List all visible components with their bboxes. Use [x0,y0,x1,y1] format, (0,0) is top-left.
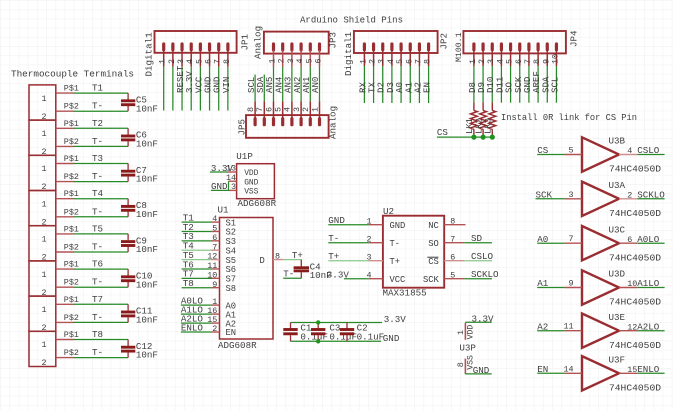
power block U1P (ADG608R supply) [226,151,277,209]
svg-text:T8: T8 [92,329,103,340]
wire net SCL [246,75,257,102]
wire JP4 pin 5 net SO [504,66,515,103]
svg-text:A0: A0 [537,234,548,245]
svg-text:6: 6 [314,58,324,63]
svg-text:VSS: VSS [244,188,258,197]
svg-text:4: 4 [627,146,632,156]
svg-text:Analog: Analog [252,26,263,59]
wire net A2LO to U1 [181,313,212,324]
wire net CSLO from U3B pin 4 [637,145,664,156]
svg-text:EN: EN [422,82,433,93]
wire JP1 pin 5 net VCC [193,67,204,111]
wire net A1LO from U3D pin 10 [637,278,664,289]
svg-text:3.3V: 3.3V [472,313,495,324]
svg-text:P$2: P$2 [64,313,79,323]
svg-text:VDD: VDD [466,325,475,340]
svg-text:7: 7 [450,235,455,245]
svg-text:P$2: P$2 [64,243,79,253]
connector JP4 (M100.1) [455,30,580,66]
wire net T1 (pin P$1) [64,83,128,94]
svg-text:U3E: U3E [609,312,626,323]
svg-text:SCKLO: SCKLO [471,269,499,280]
wire net GND to U2 pin 1 [328,215,368,226]
svg-text:6: 6 [627,235,632,245]
wire net T3 (pin P$1) [64,153,128,164]
svg-text:T-: T- [92,242,103,253]
wire net 3.3V to U1P pin 13 [210,163,233,174]
wire net T3 to U1 S3 [182,231,212,242]
wire net T- (pin P$2) [64,171,128,182]
wire net SCK to U3A pin 3 [536,189,565,200]
wire JP4 pin 9 net SDA [540,66,551,103]
svg-text:0.1uF: 0.1uF [357,332,385,343]
buffer U3C 74HC4050D [565,224,661,263]
wire net T7 (pin P$1) [64,294,128,305]
svg-text:P$1: P$1 [64,154,79,164]
svg-text:EN: EN [226,328,237,338]
svg-text:AN0: AN0 [310,77,321,93]
svg-text:SCK: SCK [423,275,440,285]
svg-text:P$1: P$1 [64,330,79,340]
svg-text:2: 2 [212,324,217,334]
svg-text:6: 6 [450,253,455,263]
wire net T- (pin P$2) [64,277,128,288]
svg-text:T-: T- [92,136,103,147]
junction CS/LK2 [481,135,486,140]
svg-text:3.3V: 3.3V [327,269,350,280]
svg-text:SCK: SCK [536,189,553,200]
wire net T- to U2 pin 2 [328,233,368,244]
wire net CS to U3B pin 5 [537,145,564,156]
wire JP2 pin 2 net TX [367,66,378,103]
svg-text:SO: SO [428,239,439,249]
svg-text:P$1: P$1 [64,295,79,305]
svg-text:74HC4050D: 74HC4050D [609,341,661,351]
svg-text:MAX31855: MAX31855 [383,288,427,299]
svg-text:P$1: P$1 [64,84,79,94]
svg-text:VIN: VIN [221,77,232,93]
wire net T- (pin P$2) [64,347,128,358]
wire JP4 pin 1 net D8 [467,66,478,102]
svg-text:U3B: U3B [609,136,626,147]
wire JP1 pin 7 net GND [212,67,223,111]
wire net T2 (pin P$1) [64,118,128,129]
wire JP1 pin 3 net RESET [175,65,186,110]
svg-text:T-: T- [92,206,103,217]
svg-text:T-: T- [92,277,103,288]
svg-text:JP5: JP5 [236,119,247,136]
wire net A0LO from U3C pin 6 [637,234,664,245]
svg-text:A0LO: A0LO [637,234,660,245]
svg-text:8: 8 [275,251,280,261]
svg-text:U1: U1 [218,205,230,216]
svg-text:74HC4050D: 74HC4050D [609,209,661,219]
junction CS/LK1 [471,135,476,140]
wire net T1 to U1 S1 [182,212,212,223]
svg-text:9: 9 [212,280,217,290]
svg-text:8: 8 [222,59,232,64]
wire JP2 pin 3 net D2 [376,66,387,103]
svg-text:74HC4050D: 74HC4050D [609,383,661,393]
svg-text:T8: T8 [183,278,194,289]
svg-text:10: 10 [627,279,637,289]
capacitor C1 0.1uF [283,323,328,343]
junction C3 top [316,320,320,324]
svg-text:15: 15 [627,365,637,375]
svg-text:74HC4050D: 74HC4050D [609,253,661,263]
wire net A2LO from U3E pin 12 [637,321,664,332]
svg-text:U1P: U1P [236,151,253,162]
svg-text:1: 1 [41,199,46,209]
svg-text:1: 1 [456,330,466,335]
svg-text:CSLO: CSLO [471,251,494,262]
svg-text:Digital1: Digital1 [343,31,354,76]
svg-text:8: 8 [423,59,433,64]
svg-text:1: 1 [41,305,46,315]
svg-text:P$1: P$1 [64,119,79,129]
svg-text:11: 11 [563,322,573,332]
capacitor C9 10nF [121,234,158,255]
wire net 3.3V to U3P pin 1 [465,313,494,324]
wire JP2 pin 4 net D3 [385,66,396,103]
svg-text:JP3: JP3 [327,32,338,49]
capacitor C5 10nF [121,93,158,114]
svg-text:LK3: LK3 [484,118,494,134]
svg-text:T+: T+ [292,250,303,261]
svg-text:U3A: U3A [609,180,626,191]
svg-text:T+: T+ [328,251,339,262]
wire net SCKLO from U2 pin 5 [464,269,499,280]
svg-text:3: 3 [231,182,236,192]
svg-text:U3F: U3F [609,355,626,366]
svg-text:8: 8 [450,217,455,227]
thermocouple ADC U2 MAX31855 [366,206,465,299]
wire net AN1 [301,67,312,101]
svg-text:ENLO: ENLO [181,322,204,333]
svg-text:CSLO: CSLO [637,145,660,156]
svg-text:8: 8 [456,362,466,367]
wire net AN4 [273,67,284,101]
connector terminal T8 [29,331,74,368]
svg-text:12: 12 [627,322,637,332]
wire JP2 pin 1 net RX [357,66,368,103]
buffer U3E 74HC4050D [563,312,661,351]
svg-text:P$2: P$2 [64,137,79,147]
svg-text:T6: T6 [92,259,103,270]
svg-text:U3P: U3P [459,343,476,354]
svg-text:A2: A2 [537,321,548,332]
svg-text:GND: GND [244,178,258,187]
svg-text:T+: T+ [390,257,401,267]
svg-text:3: 3 [568,190,573,200]
wire net T5 (pin P$1) [64,223,128,234]
svg-text:10nF: 10nF [136,315,158,326]
wire JP4 pin 10 net SCL [549,66,560,103]
svg-text:CS: CS [428,257,439,267]
svg-text:T-: T- [283,268,294,279]
connector terminal T4 [29,191,74,228]
wire net SDA [255,75,266,102]
wire net GND rail [291,333,400,344]
svg-text:ADG608R: ADG608R [218,340,257,351]
wire net T6 to U1 S6 [182,259,212,270]
svg-text:VCC: VCC [390,275,406,285]
svg-text:T5: T5 [92,223,103,234]
svg-text:SCL: SCL [549,77,560,93]
svg-text:P$1: P$1 [64,260,79,270]
svg-text:P$1: P$1 [64,189,79,199]
buffer U3F 74HC4050D [563,355,661,394]
svg-text:5: 5 [568,146,573,156]
svg-text:JP1: JP1 [239,33,250,50]
wire net AN3 [283,67,294,101]
svg-text:JP4: JP4 [569,30,580,47]
svg-text:T4: T4 [92,188,104,199]
svg-text:1: 1 [41,270,46,280]
svg-text:2: 2 [627,191,632,201]
svg-text:10nF: 10nF [136,209,158,220]
svg-text:10nF: 10nF [136,174,158,185]
svg-text:10nF: 10nF [136,279,158,290]
svg-text:9: 9 [568,279,573,289]
capacitor C2 0.1uF [340,323,384,343]
svg-text:T7: T7 [92,294,103,305]
connector JP1 (Digital1) [144,31,251,77]
wire net T- (pin P$2) [64,101,128,112]
svg-text:GND: GND [211,181,228,192]
svg-text:S8: S8 [226,284,237,294]
svg-text:T-: T- [390,239,401,249]
svg-text:GND: GND [328,215,345,226]
wire net SD from U2 pin 7 [464,233,492,244]
svg-text:1: 1 [41,235,46,245]
svg-text:1: 1 [41,129,46,139]
wire net SCKLO from U3A pin 2 [637,189,665,200]
svg-text:CS: CS [537,145,549,156]
note Install 0R link for CS Pin [501,112,637,123]
junction C3 bottom [316,339,320,343]
wire net CSLO from U2 pin 6 [464,251,493,262]
resistor LK2 (0R link) [474,102,486,137]
svg-text:NC: NC [428,221,439,231]
wire net ENLO to U1 [181,322,212,333]
wire JP2 pin 6 net A1 [403,66,414,103]
wire JP4 pin 3 net D10 [485,66,496,102]
svg-text:1: 1 [310,107,320,112]
wire net T- (pin P$2) [64,242,128,253]
svg-text:GND: GND [473,365,490,376]
svg-text:T-: T- [92,347,103,358]
svg-text:74HC4050D: 74HC4050D [609,165,661,175]
wire JP4 pin 7 net GND [522,66,533,103]
resistor LK3 (0R link) [484,102,496,137]
wire net CS (link bus) [437,127,492,138]
connector terminal T6 [29,261,74,298]
svg-text:SCKLO: SCKLO [637,189,665,200]
capacitor C8 10nF [121,199,158,220]
connector terminal T3 [29,155,74,192]
resistor LK1 (0R link) [465,102,477,137]
svg-text:T-: T- [92,171,103,182]
capacitor C10 10nF [121,269,158,290]
svg-text:U3C: U3C [609,224,626,235]
buffer U3B 74HC4050D [565,136,661,175]
wire net A1LO to U1 [181,304,212,315]
svg-text:JP2: JP2 [438,33,449,50]
wire net T- (pin P$2) [64,206,128,217]
svg-text:T1: T1 [92,83,104,94]
wire net GND to U1P pins 14,3 [211,181,229,192]
wire net EN to U3F pin 14 [537,364,564,375]
svg-text:D: D [260,256,265,266]
wire net T5 to U1 S5 [182,250,212,261]
wire JP1 pin 6 net GND [203,67,214,111]
wire net AN0 [310,67,321,101]
svg-text:M100.1: M100.1 [455,32,464,62]
connector terminal T7 [29,296,74,333]
connector JP5 (Analog) [236,101,338,139]
wire net T+ to U2 pin 3 [328,251,368,262]
svg-text:T2: T2 [92,118,103,129]
svg-text:P$2: P$2 [64,348,79,358]
multiplexer U1 ADG608R [207,205,283,351]
note Thermocouple Terminals title [11,68,134,79]
capacitor C4 10nF [294,260,332,281]
wire net T+ from U1 pin 8 [283,250,303,261]
wire JP1 pin 4 net 3.3V [184,67,195,111]
svg-text:Analog: Analog [327,106,338,139]
svg-text:ENLO: ENLO [637,364,660,375]
wire net T4 to U1 S4 [182,241,212,252]
junction CS/LK3 [490,135,495,140]
connector JP3 (Analog) [252,26,338,67]
wire net ENLO from U3F pin 15 [637,364,664,375]
connector terminal T1 [29,85,74,122]
wire JP2 pin 8 net EN [422,66,433,103]
svg-text:Arduino Shield Pins: Arduino Shield Pins [300,14,403,25]
capacitor C7 10nF [121,164,158,185]
svg-text:P$2: P$2 [64,278,79,288]
svg-text:P$1: P$1 [64,224,79,234]
svg-text:U3D: U3D [609,269,626,280]
wire JP4 pin 8 net AREF [531,66,542,103]
svg-text:10nF: 10nF [136,103,158,114]
svg-text:Thermocouple Terminals: Thermocouple Terminals [11,68,134,79]
svg-text:GND: GND [390,221,406,231]
svg-text:GND: GND [383,333,400,344]
wire net A2 to U3E pin 11 [537,321,564,332]
wire net 3.3V rail [291,314,407,325]
svg-text:P$2: P$2 [64,207,79,217]
wire net T8 (pin P$1) [64,329,128,340]
capacitor C6 10nF [121,128,158,149]
wire net T7 to U1 S7 [182,269,212,280]
note Arduino Shield Pins title [300,14,403,25]
svg-text:CS: CS [437,127,449,138]
svg-text:74HC4050D: 74HC4050D [609,298,661,308]
wire net GND to U3P pin 8 [465,365,492,376]
svg-text:5: 5 [450,271,455,281]
connector terminal T2 [29,120,74,157]
wire net 3.3V to U2 pin 4 [327,269,369,280]
svg-text:T-: T- [92,312,103,323]
svg-text:A1LO: A1LO [637,278,660,289]
svg-text:P$2: P$2 [64,172,79,182]
wire JP2 pin 5 net A0 [394,66,405,103]
wire JP1 pin 8 net VIN [221,67,232,111]
wire net T- (pin P$2) [64,312,128,323]
connector JP2 (Digital1) [343,31,449,76]
svg-text:A2LO: A2LO [637,321,660,332]
wire net T6 (pin P$1) [64,259,128,270]
wire net AN2 [292,67,303,101]
wire JP1 pin 2 [172,67,174,111]
svg-text:10nF: 10nF [136,139,158,150]
svg-text:T3: T3 [92,153,103,164]
wire net A1 to U3D pin 9 [537,278,564,289]
svg-text:10nF: 10nF [136,350,158,361]
wire net AN5 [264,67,275,101]
svg-text:T-: T- [92,101,103,112]
svg-text:3.3V: 3.3V [384,314,407,325]
wire JP4 pin 4 net D11 [494,66,505,103]
svg-text:10: 10 [550,54,560,64]
capacitor C12 10nF [121,340,158,361]
svg-text:7: 7 [568,234,573,244]
svg-text:EN: EN [537,364,548,375]
wire JP2 pin 7 net A2 [412,66,423,103]
svg-text:A1: A1 [537,278,549,289]
connector terminal T5 [29,226,74,263]
svg-text:U2: U2 [383,206,394,217]
capacitor C3 0.1uF [311,323,357,343]
svg-text:2: 2 [41,358,46,368]
svg-text:14: 14 [563,364,573,374]
svg-text:3.3V: 3.3V [211,163,234,174]
wire net T- at C4 [283,268,301,279]
buffer U3D 74HC4050D [565,269,661,308]
wire net T8 to U1 S8 [182,278,212,289]
wire net A0LO to U1 [181,295,212,306]
buffer U3A 74HC4050D [565,180,661,219]
svg-text:Install 0R link for CS Pin: Install 0R link for CS Pin [501,112,637,123]
svg-text:1: 1 [41,164,46,174]
wire net T4 (pin P$1) [64,188,128,199]
wire net T- (pin P$2) [64,136,128,147]
svg-text:1: 1 [41,340,46,350]
svg-text:VDD: VDD [244,169,258,178]
svg-text:10nF: 10nF [136,244,158,255]
wire JP4 pin 6 net SCK [513,66,524,103]
svg-text:SD: SD [471,233,483,244]
wire net T2 to U1 S2 [182,222,212,233]
wire JP4 pin 2 net D9 [476,66,487,102]
wire net A0 to U3C pin 7 [537,234,564,245]
svg-text:P$2: P$2 [64,102,79,112]
svg-text:T-: T- [328,233,339,244]
capacitor C11 10nF [121,304,158,325]
wire JP1 pin 1 [163,67,165,111]
svg-text:ADG608R: ADG608R [238,198,277,209]
svg-text:Digital1: Digital1 [144,32,155,77]
svg-text:1: 1 [41,94,46,104]
power block U3P (74HC4050 supply) [456,323,477,374]
